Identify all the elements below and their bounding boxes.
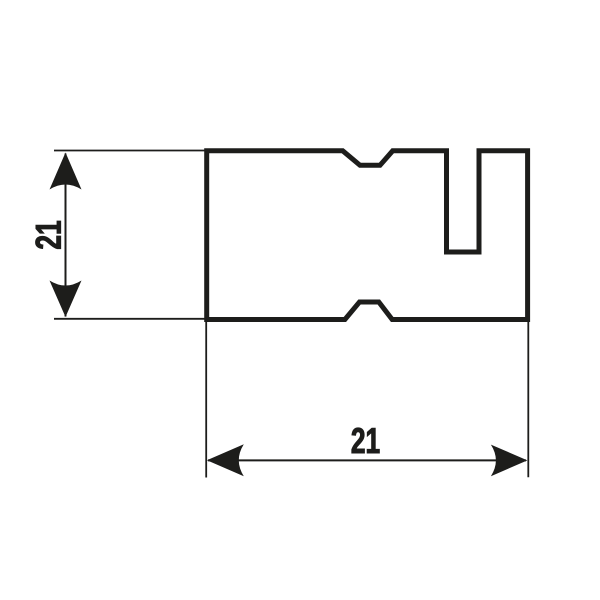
extension line bottom of height dim bbox=[54, 318, 207, 320]
arrowhead up bbox=[50, 153, 82, 190]
extension line top of height dim bbox=[54, 150, 207, 152]
extension line left of width dim bbox=[205, 321, 207, 478]
extension line right of width dim bbox=[527, 321, 529, 477]
dimension line height 21 bbox=[65, 154, 67, 317]
part outline profile bbox=[207, 151, 528, 320]
arrowhead left bbox=[207, 444, 244, 476]
dimension line width 21 bbox=[208, 459, 526, 461]
dimension text width 21 bbox=[352, 428, 380, 453]
dimension text height 21 bbox=[36, 221, 61, 249]
arrowhead down bbox=[50, 281, 82, 318]
arrowhead right bbox=[491, 445, 528, 477]
